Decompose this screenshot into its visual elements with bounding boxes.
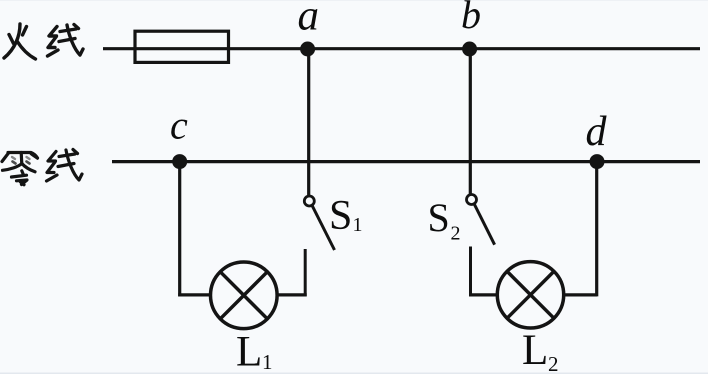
wire: neutral horizontal (112, 160, 700, 163)
lamp L1 (211, 262, 278, 329)
svg-text:S: S (329, 193, 352, 239)
svg-text:L: L (522, 327, 548, 374)
svg-text:a: a (298, 0, 320, 40)
switch S2 arm (474, 204, 494, 245)
svg-text:2: 2 (451, 223, 461, 245)
switch S1 arm (312, 205, 335, 250)
switch S1 fixed stub (304, 249, 307, 296)
fuse on live wire (135, 31, 229, 62)
svg-text:d: d (586, 109, 608, 155)
wire: to lamp L1 left (178, 293, 210, 296)
wire: c down (178, 162, 181, 297)
switch S1 pivot circle (304, 196, 314, 206)
wire: b down to switch S2 (469, 49, 472, 194)
node d (590, 154, 605, 169)
label 零线 (neutral wire) (2, 150, 82, 185)
svg-text:2: 2 (548, 352, 559, 374)
wire: live wire horizontal (103, 47, 700, 50)
wire: lamp L2 right (564, 293, 597, 296)
lamp L2 (497, 262, 563, 328)
svg-text:S: S (428, 195, 450, 240)
wire: lamp L1 right (277, 293, 307, 296)
node c (172, 154, 187, 169)
wire: d down (595, 162, 598, 297)
svg-text:c: c (170, 103, 188, 148)
wire: a down to switch S1 (307, 49, 310, 196)
svg-text:L: L (236, 329, 262, 374)
label 火线 (live wire) (4, 24, 83, 59)
node a (300, 42, 315, 57)
svg-text:1: 1 (262, 350, 273, 374)
switch S2 pivot circle (467, 195, 477, 205)
wire: stub to lamp L2 left (469, 293, 498, 296)
switch S2 fixed stub (469, 247, 472, 297)
node b (462, 42, 477, 57)
svg-text:b: b (461, 0, 481, 37)
svg-text:1: 1 (353, 214, 363, 236)
